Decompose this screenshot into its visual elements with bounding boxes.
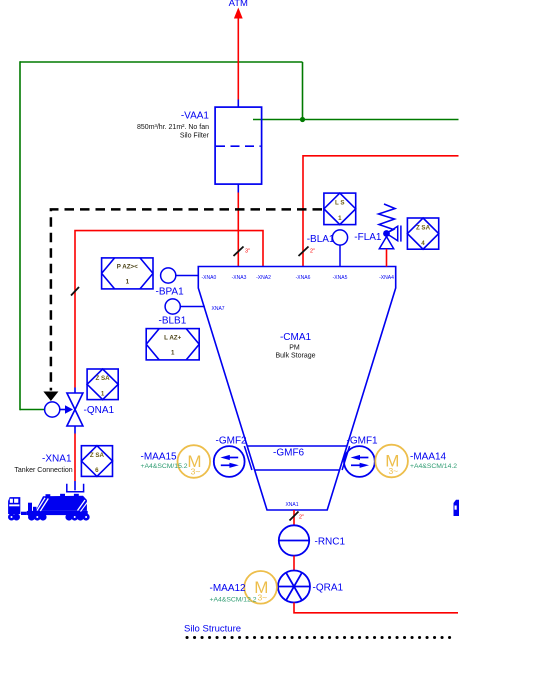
arrow: interlock arrowhead onto QNA1 actuator [43,392,58,402]
rotary valve RNC1 [279,525,346,555]
node: nozzle labels on silo top [202,275,395,281]
instrument box Z SA 4 [407,218,438,249]
blower GMF2 [214,436,247,477]
wire: green top horizontal run to left [20,61,303,63]
node: green junction dot [300,117,305,122]
svg-text:-XNA3: -XNA3 [232,275,247,281]
wire: red pipe below QNA1 to tanker connection [74,434,76,491]
svg-text:-MAA14: -MAA14 [410,452,447,463]
wire: red outlet pipe silo to RNC1 [293,510,295,525]
svg-text:XNA7: XNA7 [212,306,225,312]
motor MAA12 [244,571,277,604]
svg-text:+A4&SCM/14.2: +A4&SCM/14.2 [410,463,457,470]
label MAA15 [141,452,188,470]
svg-text:Z SA: Z SA [90,452,105,459]
svg-text:Bulk Storage: Bulk Storage [275,353,315,360]
label MAA14 [410,452,457,470]
svg-text:Tanker Connection: Tanker Connection [14,467,72,474]
relief valve FLA1 body [379,226,401,249]
label VAA1 [137,111,210,140]
tick: line size break on outlet [290,512,305,521]
svg-text:-QRA1: -QRA1 [313,583,344,594]
instrument box Z SA 1 [87,369,118,400]
svg-text:Silo Structure: Silo Structure [184,624,241,635]
tanker connection funnel [67,484,84,492]
instrument BPA1 pressure transmitter [156,268,199,298]
svg-text:-CMA1: -CMA1 [280,332,312,343]
node ATM label [229,0,248,9]
wire: red pipe from nozzle XNA6 up and right to edge [303,156,459,267]
svg-text:-RNC1: -RNC1 [315,537,346,548]
svg-text:3": 3" [245,249,250,255]
blower QRA1 [278,571,344,603]
svg-text:-GMF2: -GMF2 [216,436,248,447]
svg-text:-XNA2: -XNA2 [256,275,271,281]
silo CMA1 outline [198,267,395,511]
svg-text:-XNA6: -XNA6 [296,275,311,281]
svg-text:-FLA1: -FLA1 [354,232,382,243]
svg-text:L AZ+: L AZ+ [164,334,181,341]
svg-text:L S: L S [335,200,345,207]
svg-text:-GMF1: -GMF1 [347,436,379,447]
svg-text:-XNA5: -XNA5 [333,275,348,281]
node: nozzle XNA7 label [212,306,225,312]
instrument BLB1 level transmitter [159,299,205,327]
instrument BLA1 level switch [307,230,348,267]
svg-text:-XNA0: -XNA0 [202,275,217,281]
svg-text:-BLB1: -BLB1 [159,316,187,327]
wire: dashed interlock signal line [51,209,322,390]
motor MAA14 [375,445,408,478]
svg-text:-BPA1: -BPA1 [156,287,185,298]
blower GMF1 [344,436,378,477]
svg-text:+A4&SCM/12.2: +A4&SCM/12.2 [210,597,257,604]
tick: line size break on XNA6 pipe [299,247,316,257]
label MAA12 [210,583,257,604]
wire: red pipe filter to silo nozzle XNA3 [237,193,239,267]
svg-text:1: 1 [101,390,105,397]
svg-text:Z SA: Z SA [416,224,431,231]
svg-text:PM: PM [289,345,300,352]
wire: green stub into QNA1 actuator [20,409,45,411]
node: nozzle XNA1 outlet label [285,502,298,508]
svg-text:1: 1 [338,215,342,222]
wire: green left vertical down [19,61,21,410]
svg-text:-XNA4: -XNA4 [379,275,394,281]
svg-text:850m³/hr. 21m². No fan: 850m³/hr. 21m². No fan [137,124,209,131]
svg-text:-MAA15: -MAA15 [141,452,178,463]
svg-text:-MAA12: -MAA12 [210,583,247,594]
relief valve FLA1 spring [379,204,396,233]
fluidizing band GMF6 [244,446,349,470]
wire: blue stub into filter top [237,100,239,108]
truck fragment at right edge [454,500,460,516]
svg-text:1: 1 [126,279,130,286]
label FLA1 [354,232,382,243]
wire: red pipe RNC1 to QRA1 [293,556,295,571]
tick: line size break on XNA3 pipe [234,247,251,257]
svg-text:3~: 3~ [388,466,398,476]
svg-text:XNA1: XNA1 [285,502,298,508]
instrument box Z SA 6 [81,446,112,477]
svg-text:-QNA1: -QNA1 [84,405,115,416]
svg-text:Z SA: Z SA [96,375,111,382]
wire: red fill pipe from QNA1 up and over to silo nozzle XNA2 [75,231,263,388]
svg-text:2": 2" [299,515,304,521]
label XNA1 tanker connection [14,454,72,474]
filter VAA1 [215,107,262,184]
tanker truck [8,494,90,521]
svg-text:P AZ><: P AZ>< [117,264,138,271]
wire: red stub FLA1 to nozzle XNA4 [386,249,388,267]
svg-text:3~: 3~ [191,467,201,477]
instrument box LS 1 [324,193,356,225]
boundary: dotted silo structure line [187,636,457,639]
svg-text:1: 1 [171,350,175,357]
tick: break mark on fill pipe riser [71,287,79,296]
svg-text:-GMF6: -GMF6 [273,448,305,459]
alarm box L AZ+ 1 [146,329,199,360]
svg-text:2": 2" [310,249,315,255]
motor MAA15 [178,445,211,478]
svg-text:Silo Filter: Silo Filter [180,133,210,140]
svg-text:4: 4 [421,240,425,247]
alarm box P AZ>< 1 [102,258,153,289]
wire: blue stub from filter bottom [237,184,239,192]
svg-text:6: 6 [95,467,99,474]
valve QNA1 butterfly [67,388,115,434]
wire: green branch riser up from header [302,62,304,120]
wire: red discharge pipe from QRA1 to right edge [294,603,458,613]
svg-text:-XNA1: -XNA1 [42,454,72,465]
svg-text:-VAA1: -VAA1 [181,111,210,122]
svg-text:-BLA1: -BLA1 [307,234,335,245]
actuator: QNA1 actuator circle and arrow [45,402,73,417]
label CMA1 [275,332,315,360]
svg-text:+A4&SCM/15.2: +A4&SCM/15.2 [141,463,188,470]
label Silo Structure [184,624,241,635]
svg-text:3~: 3~ [257,592,267,602]
wire: green vent header horizontal to right edge [253,119,459,121]
wire: red vent to atmosphere with arrowhead [234,8,243,100]
